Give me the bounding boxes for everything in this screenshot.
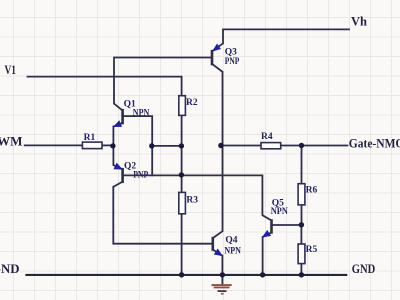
resistor R3 (179, 192, 186, 213)
svg-text:GND: GND (0, 261, 20, 276)
wire Q1 base to Q2 base vertical (124, 116, 153, 175)
svg-text:R2: R2 (186, 98, 198, 108)
junction node R3-GND (179, 272, 184, 277)
wire Q4 emitter down to ground (221, 256, 223, 285)
junction node gate left (218, 143, 223, 148)
junction node Q4-GND (220, 272, 225, 277)
wire R4 to gate output (281, 145, 348, 147)
svg-text:NPN: NPN (271, 207, 288, 217)
transistor Q4 (213, 231, 223, 256)
transistor Q1 (113, 104, 122, 127)
svg-text:Vh: Vh (351, 13, 368, 28)
svg-text:R1: R1 (84, 133, 96, 143)
svg-text:R6: R6 (306, 186, 318, 196)
wire R1 to emitter node (102, 144, 113, 146)
wire divider node to R5 (300, 225, 302, 244)
svg-text:GND: GND (352, 261, 376, 276)
wire Vh rail (223, 29, 349, 43)
wire GND rail (26, 274, 346, 276)
transistor Q3 (212, 44, 223, 72)
svg-text:NPN: NPN (224, 247, 241, 257)
svg-text:V1: V1 (5, 62, 17, 77)
junction node bases vertical (149, 143, 154, 148)
wire R5 bottom to GND rail (300, 264, 302, 275)
wire Q2 collector to Q4 base (113, 187, 212, 244)
svg-text:Q3: Q3 (225, 48, 237, 58)
transistor Q5 (262, 215, 271, 237)
resistor R6 (298, 184, 305, 205)
wire Q2 emitter up (112, 146, 114, 165)
svg-text:R3: R3 (186, 196, 198, 206)
wire Q5 base (272, 224, 301, 226)
junction node base bus (179, 172, 184, 177)
wire Q3 collector to Q4 collector (222, 72, 224, 231)
wire Q3 base to Q1 collector (114, 58, 212, 104)
resistor R1 (82, 142, 102, 149)
junction node Q5-GND (260, 272, 265, 277)
arrow Q3 emitter (213, 44, 220, 51)
svg-text:PNP: PNP (225, 57, 240, 67)
wire base bus to Q5 collector (124, 175, 263, 215)
resistor R4 (261, 143, 281, 149)
junction node divider top (179, 143, 184, 148)
svg-text:PNP: PNP (133, 170, 148, 180)
arrow Q2 emitter (114, 163, 122, 169)
transistor Q2 (113, 165, 122, 187)
svg-text:R5: R5 (306, 245, 318, 255)
svg-text:NPN: NPN (133, 109, 150, 119)
wire gate output to R6 (301, 146, 303, 184)
junction node R1-emitters (110, 143, 115, 148)
junction node R5-GND (299, 272, 304, 277)
wire R3 bottom to GND rail (181, 214, 183, 275)
svg-text:Gate-NMOS: Gate-NMOS (349, 135, 400, 150)
wire V1 input (28, 77, 182, 96)
resistor R2 (179, 96, 186, 116)
wire R6 bottom to divider node (301, 205, 303, 225)
svg-text:PWM: PWM (0, 133, 23, 148)
wire Q1 emitter down (112, 126, 114, 145)
junction node R6-R5-Q5 (299, 222, 304, 227)
arrow Q4 emitter (215, 249, 223, 255)
junction node gate right (299, 143, 304, 148)
ground earth symbol (212, 285, 232, 294)
wire gate node to R4 (221, 145, 261, 147)
svg-text:R4: R4 (261, 132, 273, 142)
resistor R5 (298, 244, 305, 264)
wire node segment bases to divider (152, 145, 182, 147)
svg-text:Q4: Q4 (225, 236, 237, 246)
wire R2 bottom to R3 top (181, 115, 183, 192)
arrow Q5 emitter (263, 231, 271, 237)
wire Q5 emitter down (262, 237, 264, 275)
wire PWM input to R1 (25, 144, 83, 146)
arrow Q1 emitter (114, 121, 122, 127)
